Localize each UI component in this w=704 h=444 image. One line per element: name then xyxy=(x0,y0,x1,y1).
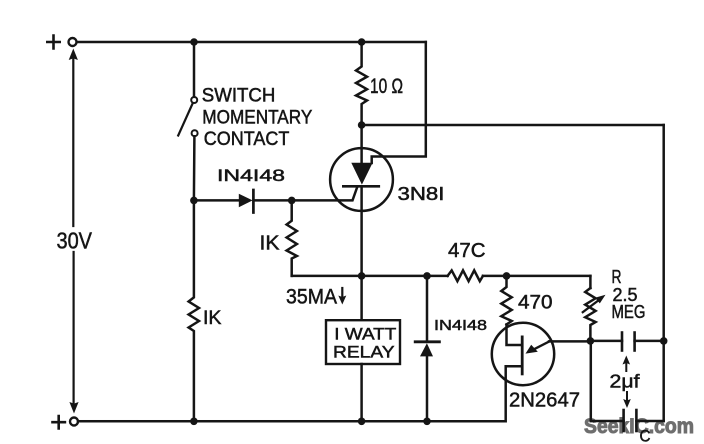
node dot (right rail junction) xyxy=(660,337,668,345)
switch lower contact circle xyxy=(192,130,198,136)
svg-text:3N8I: 3N8I xyxy=(398,184,445,204)
UJT base bar xyxy=(521,337,524,374)
node dot (switch branch, top rail) xyxy=(190,38,198,46)
capacitor C1 plate left xyxy=(621,333,624,351)
diode D1 cathode bar xyxy=(252,190,255,213)
wire: mid rail right part xyxy=(483,275,591,278)
svg-text:CONTACT: CONTACT xyxy=(204,129,290,150)
diode D2 1N4148 (vertical) xyxy=(426,276,429,342)
terminal circle top left xyxy=(69,38,77,46)
label SWITCH MOMENTARY CONTACT xyxy=(202,85,313,150)
svg-text:C: C xyxy=(639,427,650,444)
node dot (mid rail / diode branch) xyxy=(423,272,431,280)
wire: upper horizontal to right rail xyxy=(362,124,664,127)
resistor R2 1K (gate to mid rail) xyxy=(287,200,297,276)
terminal + (bottom left) xyxy=(52,416,64,429)
svg-text:IN4I48: IN4I48 xyxy=(217,166,285,185)
label R 2.5 MEG xyxy=(611,267,645,322)
node dot (10 ohm branch, top rail) xyxy=(358,38,366,46)
wire: top rail xyxy=(77,41,426,44)
wire: mid rail corner down to rheostat xyxy=(589,276,592,288)
svg-text:10 Ω: 10 Ω xyxy=(370,75,403,98)
capacitor C2 plate left xyxy=(622,410,625,431)
relay box xyxy=(326,320,400,364)
resistor 47C xyxy=(448,270,483,281)
label 1 WATT RELAY xyxy=(333,324,396,361)
svg-text:IN4I48: IN4I48 xyxy=(434,318,487,334)
rheostat arrow xyxy=(583,299,601,312)
svg-text:IK: IK xyxy=(259,232,279,255)
30V measurement arrow (down head) xyxy=(69,402,78,414)
node dot (switch line bottom) xyxy=(190,417,198,425)
resistor R1 1K (switch line) xyxy=(189,200,199,421)
resistor 470 xyxy=(501,276,511,325)
relay to bottom rail wire xyxy=(360,364,363,421)
capacitor C2 plate right xyxy=(635,410,638,431)
wire: right rail xyxy=(662,125,665,421)
wire: bottom rail xyxy=(78,420,505,423)
wire: mid rail xyxy=(292,275,448,278)
svg-text:MOMENTARY: MOMENTARY xyxy=(202,107,312,128)
wire: left rail lower segment xyxy=(72,252,74,407)
wire: capacitor to right rail xyxy=(635,340,664,343)
svg-text:I WATT: I WATT xyxy=(334,324,396,343)
2uf pointer arrow down xyxy=(626,392,628,401)
node dot (D2 bottom) xyxy=(423,418,431,426)
switch S1: wire from top rail xyxy=(193,42,196,97)
wire: rheostat node down xyxy=(590,341,593,421)
wire: bottom right segment right part xyxy=(636,420,663,423)
svg-text:30V: 30V xyxy=(56,227,92,253)
svg-text:SWITCH: SWITCH xyxy=(202,85,276,106)
wire: anode-gate path from top rail xyxy=(372,42,426,163)
terminal + (top left) xyxy=(47,35,59,48)
wire: bottom right segment left part xyxy=(591,420,624,423)
D2 triangle xyxy=(420,343,433,356)
capacitor C1 plate right xyxy=(633,333,636,351)
terminal circle bottom left xyxy=(70,417,78,425)
UJT emitter arrowhead xyxy=(525,345,537,354)
resistor 10 ohm xyxy=(356,42,367,125)
diode D1 1N4148: anode wire xyxy=(194,199,239,202)
node dot (relay bottom) xyxy=(358,418,366,426)
svg-text:35MA: 35MA xyxy=(286,285,337,308)
wire: gate node to SCR gate xyxy=(292,187,358,201)
svg-text:2μf: 2μf xyxy=(609,372,640,392)
node dot (470 branch) xyxy=(503,272,511,280)
node dot (mid rail / SCR cathode) xyxy=(358,272,366,280)
UJT base1 lead xyxy=(506,325,522,346)
wire: emitter node to capacitor xyxy=(549,340,622,343)
svg-text:R: R xyxy=(611,267,621,287)
node dot (emitter / rheostat junction) xyxy=(587,337,595,345)
svg-text:470: 470 xyxy=(518,292,553,313)
svg-text:MEG: MEG xyxy=(611,302,645,322)
SCR cathode wire xyxy=(360,186,363,276)
D2 to bottom rail xyxy=(426,356,429,421)
node dot (below 10 ohm) xyxy=(358,121,366,129)
svg-text:47C: 47C xyxy=(448,240,486,262)
svg-text:IK: IK xyxy=(203,307,222,329)
D2 cathode bar xyxy=(415,340,439,343)
SCR 3N81 circle xyxy=(330,148,393,211)
2uf pointer arrow up xyxy=(625,362,627,371)
SCR triangle xyxy=(351,163,372,185)
node dot (diode node at switch line) xyxy=(190,197,198,205)
svg-text:2N2647: 2N2647 xyxy=(509,390,580,412)
UJT 2N2647 circle xyxy=(492,323,554,385)
svg-text:RELAY: RELAY xyxy=(333,343,395,362)
switch upper contact circle xyxy=(191,97,197,103)
diode D1 triangle xyxy=(239,194,253,208)
UJT emitter lead xyxy=(533,341,550,350)
UJT base2 lead xyxy=(506,366,523,421)
wire: diode to 1K node xyxy=(254,199,292,202)
wire: left rail upper segment xyxy=(72,57,74,226)
SCR anode wire xyxy=(360,125,363,163)
SCR cathode bar xyxy=(343,185,379,188)
rheostat R 2.5 MEG xyxy=(585,288,595,341)
node dot (gate node) xyxy=(288,197,296,205)
switch blade xyxy=(178,103,192,135)
wire: switch to diode node xyxy=(193,136,196,200)
30V measurement arrow (up head) xyxy=(69,48,78,60)
relay feed wire xyxy=(360,276,363,320)
